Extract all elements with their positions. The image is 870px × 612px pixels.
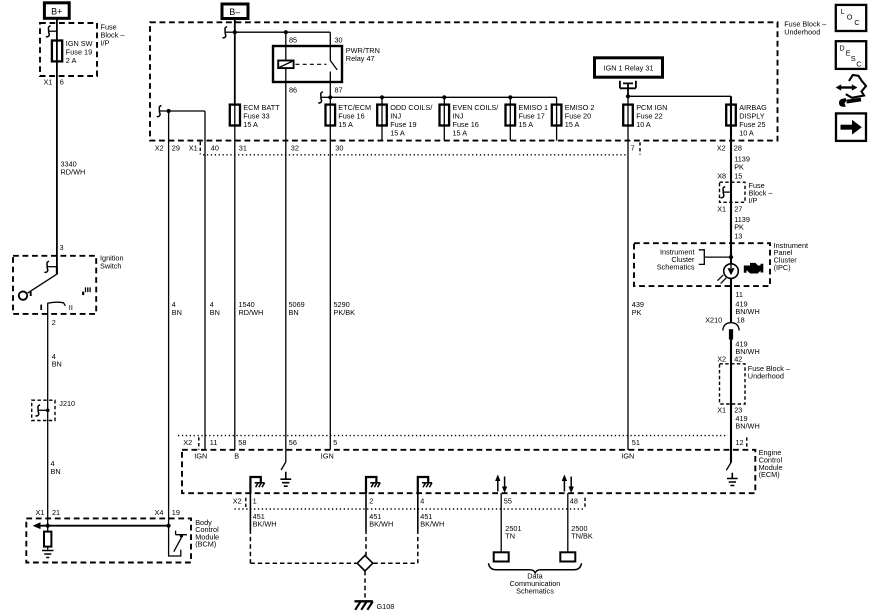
value label 419 BN/WH upper — [735, 299, 759, 316]
value label 419 BN/WH lower — [735, 414, 759, 431]
svg-text:C: C — [854, 18, 859, 27]
wire BCM internal bus with arrow — [33, 522, 169, 529]
junction relay 31 output — [626, 94, 630, 98]
label PWR/TRN Relay 47 — [346, 46, 380, 63]
svg-text:S: S — [851, 54, 856, 63]
svg-text:Underhood: Underhood — [784, 27, 820, 36]
DESC navigation box — [836, 41, 866, 69]
svg-text:J210: J210 — [59, 399, 75, 408]
svg-text:86: 86 — [289, 85, 297, 94]
value label 1139 PK lower — [734, 215, 750, 232]
svg-text:RD/WH: RD/WH — [61, 167, 86, 176]
svg-text:O: O — [847, 12, 853, 21]
svg-text:IGN 1 Relay 31: IGN 1 Relay 31 — [604, 63, 654, 72]
svg-text:X2: X2 — [155, 144, 164, 153]
terminal symbol at 2500 TN/BK — [560, 552, 575, 561]
wire PCM/AIRBAG bus — [628, 95, 731, 97]
fuse block underhood (large dashed box) — [150, 22, 778, 140]
svg-text:87: 87 — [335, 85, 343, 94]
dashed tick right of ECM bottom X2 — [245, 498, 247, 509]
svg-text:15 A: 15 A — [565, 120, 580, 129]
wire relay pin 87 down through ETC fuse to ECM — [329, 82, 331, 450]
junction relay pin 85 tap — [284, 30, 288, 34]
dashed tick right of X1 40 — [199, 142, 201, 155]
svg-text:58: 58 — [238, 438, 246, 447]
ECM serial data arrows at pin 55 — [495, 475, 507, 494]
wire B- header to relay — [235, 31, 330, 33]
switch arm contact nub — [30, 291, 32, 296]
svg-text:40: 40 — [211, 144, 219, 153]
junction bus at ETC fuse — [328, 95, 332, 99]
svg-text:BK/WH: BK/WH — [253, 520, 277, 529]
svg-text:X2: X2 — [717, 144, 726, 153]
pin X8 15 — [717, 171, 742, 180]
fuse IGN SW Fuse 19 2A — [52, 41, 62, 62]
label data communication schematics — [510, 572, 561, 596]
svg-text:IGN: IGN — [621, 451, 634, 460]
svg-text:11: 11 — [735, 290, 743, 299]
fuse block I/P small (dashed box, right column) — [720, 182, 746, 202]
switch pivot — [19, 291, 27, 299]
svg-text:31: 31 — [239, 144, 247, 153]
wire fuse bus fed by relay 87 — [330, 96, 556, 98]
pin row ECM top: X2 11 58 56 5 51 12 — [183, 438, 743, 447]
label fuse block underhood small — [748, 364, 791, 381]
splice diamond — [357, 555, 373, 571]
dashed wire diamond to G108 — [364, 571, 366, 600]
svg-text:10 A: 10 A — [739, 129, 754, 138]
svg-text:X1: X1 — [717, 205, 726, 214]
svg-text:BK/WH: BK/WH — [420, 520, 444, 529]
junction BCM pin 21 — [46, 524, 50, 528]
dashed tick right of ECM X2 — [198, 437, 200, 449]
svg-text:X1: X1 — [36, 508, 45, 517]
connector clip at left of B- header — [223, 27, 235, 38]
svg-text:X4: X4 — [155, 508, 164, 517]
fuse EVEN COILS/INJ Fuse 16 — [440, 105, 450, 126]
svg-text:L: L — [841, 7, 845, 16]
svg-text:10 A: 10 A — [636, 120, 651, 129]
svg-text:BN: BN — [289, 308, 299, 317]
fuse ODD COILS/INJ Fuse 19 — [377, 105, 387, 126]
svg-text:G108: G108 — [377, 602, 395, 611]
switch contact stub — [56, 267, 58, 275]
value label 451 BK/WH at pin 4 — [420, 512, 444, 529]
wire ECM pin 55 to DLC terminal — [500, 493, 502, 552]
value label EVEN COILS/INJ Fuse 16 15 A — [453, 103, 500, 138]
instrument panel cluster IPC (dashed box) — [634, 243, 770, 286]
connector clip inside ignition switch — [45, 261, 57, 272]
engine control module ECM (dashed box) — [182, 450, 755, 493]
diagnostic tool icon (arrows and wrench) — [836, 75, 866, 107]
wire B- drop — [234, 19, 236, 105]
svg-text:2: 2 — [369, 496, 373, 505]
value label wire 3340 RD/WH — [61, 160, 86, 177]
wire ECM pin 48 to DLC terminal — [567, 493, 569, 552]
ECM internal switch and ground at pin 56 — [280, 450, 291, 486]
indicator lamp LED symbol inside IPC — [718, 264, 739, 284]
LOC navigation box — [836, 5, 866, 31]
pin X2 28 AIRBAG — [717, 144, 742, 153]
svg-text:X1: X1 — [189, 144, 198, 153]
dashed wire ground bus left — [250, 562, 356, 564]
svg-text:BN: BN — [52, 360, 62, 369]
net labels inside ECM: IGN B IGN IGN — [194, 451, 634, 460]
dotted separator other-schematics (upper) — [203, 154, 627, 156]
svg-text:C: C — [856, 60, 861, 69]
connector clip at left of coil bus — [318, 92, 330, 103]
switch arm — [28, 274, 57, 293]
svg-text:15 A: 15 A — [338, 120, 353, 129]
wire bus drop to EMISO2 fuse — [556, 97, 558, 140]
dashed tick right of pin 12 — [746, 437, 748, 449]
fuse AIRBAG DISPLY Fuse 25 — [726, 105, 736, 126]
dashed wire ground bus right — [373, 562, 417, 564]
value label 451 BK/WH at pin 1 — [253, 512, 277, 529]
forward navigation box with arrow — [836, 113, 866, 140]
label fuse block underhood — [784, 20, 827, 37]
svg-text:RD/WH: RD/WH — [239, 308, 264, 317]
svg-text:12: 12 — [735, 438, 743, 447]
value label 1139 PK upper — [734, 155, 750, 172]
svg-text:11: 11 — [210, 438, 218, 447]
wire fuse block pin 29 drop to BCM — [168, 111, 170, 526]
fuse ECM BATT Fuse 33 — [230, 105, 240, 126]
svg-text:Schematics: Schematics — [657, 263, 695, 272]
wire bracket link to cluster wire — [704, 256, 731, 258]
BCM output driver symbol — [169, 526, 187, 556]
wire EMISO1 fuse drop — [509, 97, 511, 140]
svg-text:BN: BN — [51, 467, 61, 476]
relay coil — [278, 61, 293, 69]
svg-text:55: 55 — [504, 496, 512, 505]
svg-text:15 A: 15 A — [519, 120, 534, 129]
label instrument cluster schematics — [657, 248, 695, 272]
wire ECM pin 4 stub — [417, 493, 419, 529]
svg-text:II: II — [69, 303, 73, 312]
relay PWR/TRN Relay 47 box — [273, 46, 342, 82]
value label IGN SW Fuse 19 2 A — [66, 39, 93, 65]
svg-text:4: 4 — [420, 496, 424, 505]
dashed tick right of pin 48 — [584, 498, 586, 509]
ECM internal switch and ground at pin 12 — [726, 450, 737, 486]
ignition switch (dashed box) — [13, 256, 96, 314]
fuse EMISO 2 Fuse 20 — [552, 105, 562, 126]
svg-text:1: 1 — [253, 496, 257, 505]
wire AIRBAG fuse drop (1139 PK) — [730, 96, 732, 263]
label engine control module (ECM) — [759, 448, 783, 479]
junction bus at ODD fuse — [380, 95, 384, 99]
position mark III — [82, 287, 90, 295]
wire ignition switch output — [47, 303, 49, 526]
connector X210 symbol — [723, 323, 739, 340]
label instrument panel cluster (IPC) — [774, 241, 808, 272]
value label wire 4 BN upper left — [52, 352, 62, 369]
label body control module (BCM) — [195, 518, 219, 549]
position mark I — [40, 305, 42, 310]
label ignition switch — [100, 254, 124, 271]
svg-text:21: 21 — [52, 508, 60, 517]
svg-text:27: 27 — [734, 205, 742, 214]
brace data communication — [489, 563, 582, 573]
svg-text:X2: X2 — [233, 496, 242, 505]
value label 419 BN/WH middle — [735, 339, 759, 356]
svg-text:X1: X1 — [44, 78, 53, 87]
svg-text:X8: X8 — [717, 171, 726, 180]
junction bus at EVEN fuse — [442, 95, 446, 99]
pin row ECM bottom: X2 1 2 4 55 48 — [233, 496, 578, 505]
pin X2 42 — [717, 355, 742, 364]
bracket for instrument cluster schematics — [699, 250, 705, 265]
pin X1 23 — [717, 405, 742, 414]
svg-text:X2: X2 — [183, 438, 192, 447]
value label 2501 TN — [505, 524, 521, 541]
value label ETC/ECM Fuse 16 15 A — [338, 103, 371, 129]
relay 31 contact feed symbol — [620, 81, 636, 97]
fuse PCM IGN Fuse 22 — [623, 105, 633, 126]
node B+ — [44, 3, 69, 18]
svg-text:(ECM): (ECM) — [759, 470, 780, 479]
value label ECM BATT Fuse 33 15 A — [243, 103, 280, 129]
svg-text:29: 29 — [172, 144, 180, 153]
connector clip inside J210 — [36, 405, 50, 416]
svg-text:D: D — [839, 44, 844, 53]
value label 451 BK/WH at pin 2 — [369, 512, 393, 529]
svg-text:Switch: Switch — [100, 262, 122, 271]
svg-text:6: 6 — [60, 78, 64, 87]
svg-text:2 A: 2 A — [66, 56, 77, 65]
pin X1 6 — [44, 78, 64, 87]
wire IPC to X210 — [730, 278, 732, 322]
dotted separator other-schematics (lower) — [235, 508, 586, 510]
svg-text:30: 30 — [335, 144, 343, 153]
connector clip at underhood left feed — [157, 106, 205, 117]
fuse EMISO 1 Fuse 17 — [506, 105, 516, 126]
svg-text:18: 18 — [737, 316, 745, 325]
svg-text:15 A: 15 A — [243, 120, 258, 129]
wire ODD fuse drop — [381, 97, 383, 140]
wire EVEN fuse drop — [443, 97, 445, 140]
pin X4 19 BCM — [155, 508, 180, 517]
value label EMISO 1 Fuse 17 15 A — [519, 103, 549, 129]
svg-text:85: 85 — [289, 36, 297, 45]
ground G108 — [355, 601, 373, 610]
svg-text:Underhood: Underhood — [748, 372, 784, 381]
wire ECM pin 1 stub — [249, 493, 251, 529]
value labels 4 BN / 4 BN / 1540 RD/WH / 5069 BN / 5290 PK/BK — [172, 300, 182, 317]
svg-text:3: 3 — [60, 243, 64, 252]
svg-text:28: 28 — [734, 144, 742, 153]
svg-text:15 A: 15 A — [390, 129, 405, 138]
svg-text:BK/WH: BK/WH — [369, 520, 393, 529]
svg-text:PK/BK: PK/BK — [334, 308, 356, 317]
resistor inside BCM — [44, 526, 51, 550]
svg-text:IGN: IGN — [194, 451, 207, 460]
dashed tick right of pin 7 — [639, 142, 641, 154]
junction underhood feed — [167, 109, 171, 113]
label fuse block I/P small — [749, 181, 774, 205]
svg-text:48: 48 — [570, 496, 578, 505]
svg-text:IGN: IGN — [321, 451, 334, 460]
svg-text:B+: B+ — [51, 6, 62, 16]
svg-text:32: 32 — [291, 144, 299, 153]
pin X1 27 — [717, 205, 742, 214]
wire relay coil feed pin 85 — [285, 32, 287, 60]
wire X210 to fuse block underhood small — [730, 340, 732, 450]
pin X1 21 BCM — [36, 508, 61, 517]
svg-text:15 A: 15 A — [453, 129, 468, 138]
wire PCM IGN fuse drop to pin 7 — [627, 96, 629, 450]
dashed wire pin 2 to splice diamond — [365, 530, 367, 556]
ECM chassis ground hook at pin 1 — [250, 477, 264, 494]
svg-text:I/P: I/P — [749, 196, 758, 205]
svg-text:(IPC): (IPC) — [774, 263, 791, 272]
value label ODD COILS/INJ Fuse 19 15 A — [390, 103, 433, 138]
svg-text:X2: X2 — [717, 355, 726, 364]
fuse ETC/ECM Fuse 16 — [326, 105, 336, 126]
svg-text:2: 2 — [52, 318, 56, 327]
splice J210 (dashed box) — [32, 400, 55, 420]
fuse block underhood small (dashed box, right column) — [720, 364, 746, 404]
svg-text:BN/WH: BN/WH — [735, 422, 759, 431]
pin row under fuse block: X2 29 X1 40 31 32 30 — [155, 144, 344, 153]
ECM chassis ground hook at pin 2 — [366, 477, 380, 494]
junction B- header — [233, 30, 237, 34]
connector clip inside I/P small box — [721, 187, 731, 198]
svg-text:PK: PK — [734, 223, 744, 232]
relay coil-contact link (dashed) — [296, 63, 327, 65]
svg-text:TN: TN — [505, 532, 515, 541]
svg-text:PK: PK — [632, 308, 642, 317]
connector clip at B+ fuse feed — [46, 26, 57, 37]
svg-text:51: 51 — [632, 438, 640, 447]
svg-text:30: 30 — [335, 36, 343, 45]
svg-text:(BCM): (BCM) — [195, 540, 216, 549]
svg-text:B–: B– — [229, 7, 240, 17]
svg-text:Relay 47: Relay 47 — [346, 54, 375, 63]
wire ECM pin 2 stub — [365, 493, 367, 529]
svg-text:42: 42 — [734, 355, 742, 364]
wire relay pin 86 down — [285, 68, 287, 450]
junction cluster feed — [729, 255, 733, 259]
label fuse block I/P — [101, 23, 126, 48]
ECM serial data arrows at pin 48 — [562, 475, 574, 494]
relay contact — [330, 46, 337, 82]
value label 439 PK — [632, 300, 644, 317]
connector X210 label and pin 18 — [705, 316, 745, 325]
dashed wire pin 1 to ground net — [249, 530, 251, 564]
ground inside BCM — [42, 551, 54, 558]
node B- — [222, 4, 248, 19]
svg-text:15: 15 — [734, 171, 742, 180]
svg-text:BN: BN — [210, 308, 220, 317]
svg-text:X1: X1 — [717, 405, 726, 414]
junction bus at EMISO1 fuse — [508, 95, 512, 99]
wire relay pin 30 — [329, 32, 331, 46]
position mark II contact bar — [48, 302, 66, 306]
svg-text:7: 7 — [631, 144, 635, 153]
value label AIRBAG DISPLY Fuse 25 10 A — [739, 103, 767, 138]
value label PCM IGN Fuse 22 10 A — [636, 103, 667, 129]
value label 2500 TN/BK — [571, 524, 593, 541]
wire B+ feed down to ignition switch — [56, 18, 58, 267]
dotted separator other-schematics (middle, above ECM) — [178, 435, 728, 437]
svg-text:Schematics: Schematics — [516, 587, 554, 596]
telltale icon inside IPC — [744, 263, 764, 274]
wire ECM BATT fuse to ECM pin 58 — [234, 105, 236, 450]
svg-text:19: 19 — [172, 508, 180, 517]
svg-text:5: 5 — [333, 438, 337, 447]
terminal symbol at 2501 TN — [494, 552, 509, 561]
svg-text:13: 13 — [734, 231, 742, 240]
svg-text:56: 56 — [289, 438, 297, 447]
ECM chassis ground hook at pin 4 — [418, 477, 432, 494]
body control module BCM (dashed box) — [26, 518, 191, 562]
dashed wire pin 4 to ground net — [417, 530, 419, 564]
svg-text:X210: X210 — [705, 316, 722, 325]
relay IGN 1 Relay 31 (bold box) — [595, 58, 663, 77]
svg-text:PK: PK — [734, 162, 744, 171]
junction BCM pin 19 — [167, 524, 171, 528]
wire fuse block pin 40 drop to ECM — [204, 111, 206, 450]
svg-text:BN: BN — [172, 308, 182, 317]
value label wire 4 BN lower left — [51, 459, 61, 476]
svg-text:I/P: I/P — [101, 39, 110, 48]
value label EMISO 2 Fuse 20 15 A — [565, 103, 595, 129]
fuse block I/P (dashed box, top left) — [40, 23, 97, 76]
svg-text:TN/BK: TN/BK — [571, 532, 593, 541]
svg-text:B: B — [234, 451, 239, 460]
